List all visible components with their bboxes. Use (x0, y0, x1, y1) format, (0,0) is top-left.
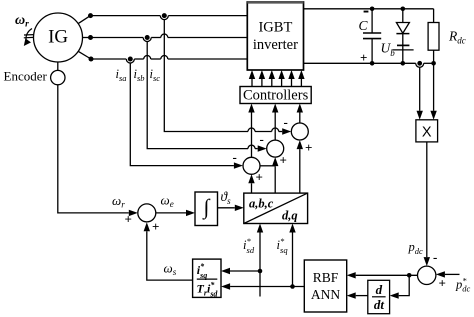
svg-text:+: + (439, 276, 446, 291)
wire phase a (top) from IG to inverter (78, 16, 90, 24)
svg-text:Encoder: Encoder (4, 69, 48, 84)
svg-text:∫: ∫ (202, 195, 211, 220)
wire p_dc to summer (426, 142, 428, 257)
summer S4 (dc power) (418, 266, 436, 284)
svg-text:ϑs: ϑs (221, 189, 232, 206)
node: cap bottom dot (370, 61, 375, 66)
battery branch: diode D1 (402, 9, 404, 23)
svg-text:IG: IG (48, 27, 68, 48)
node: phase b feed dot (88, 35, 93, 40)
node: i_sb tap junction (145, 35, 150, 40)
node: phase a feed dot (88, 13, 93, 18)
wire DC bus bottom (304, 62, 416, 64)
label minus (bus polarity) (364, 11, 369, 13)
svg-text:ANN: ANN (311, 287, 340, 302)
coordinate transform block a,b,c / d,q (244, 193, 308, 223)
wire reference phase b to summer J2 (274, 166, 276, 193)
svg-text:+: + (280, 153, 287, 168)
svg-text:-: - (284, 115, 288, 130)
svg-text:i*sd: i*sd (243, 236, 255, 255)
capacitor C (371, 9, 373, 33)
svg-text:d: d (376, 282, 383, 297)
svg-text:ωr: ωr (112, 193, 125, 210)
svg-text:p*dc: p*dc (455, 276, 471, 294)
wire current sense to multiplier (433, 63, 435, 111)
svg-text:Ub: Ub (381, 41, 396, 59)
svg-text:inverter: inverter (253, 37, 298, 53)
svg-text:C: C (359, 18, 369, 33)
node: phase c feed dot (89, 57, 94, 62)
svg-text:pdc: pdc (408, 240, 424, 256)
node: voltage sense junction on bottom bus (417, 61, 422, 66)
wire error branch to d/dt (399, 275, 410, 295)
wire J3 output to Controllers (299, 113, 301, 124)
wire i_sd branch to slip calculator (230, 270, 260, 272)
wire d/dt to RBF ANN (356, 295, 368, 297)
encoder circle (57, 62, 59, 70)
wire p_dc reference input (445, 273, 460, 275)
summer J3 (291, 123, 308, 140)
svg-text:+: + (256, 170, 263, 185)
multiplier block X (416, 120, 438, 142)
wire i_sa sense line to summer J1 (130, 63, 234, 166)
wire J2 output to Controllers (274, 113, 276, 141)
integrator block (195, 192, 218, 226)
svg-text:ωr: ωr (15, 13, 29, 30)
wire reference phase a to summer J1 (251, 183, 253, 193)
RBF ANN block (304, 260, 346, 312)
slip frequency calculator block (193, 259, 221, 297)
svg-text:RBF: RBF (313, 270, 339, 285)
wire omega_s to speed summer (147, 231, 193, 280)
wire DC bus top (304, 8, 434, 10)
wire i_sc sense line to summer J3 (164, 20, 248, 132)
induction generator IG (34, 13, 83, 62)
shaft rotation arrow (24, 29, 34, 47)
wire voltage sense to multiplier (419, 67, 421, 111)
svg-text:-: - (233, 150, 237, 165)
wire phase c (bottom) from IG to inverter (78, 51, 91, 59)
svg-text:Controllers: Controllers (243, 88, 309, 104)
svg-text:+: + (125, 212, 132, 227)
svg-text:ωs: ωs (164, 261, 177, 278)
svg-text:+: + (305, 140, 312, 155)
svg-text:i*sq: i*sq (277, 236, 289, 255)
derivative block d/dt (368, 280, 390, 313)
svg-text:Tri*sd: Tri*sd (197, 281, 219, 299)
node: i_sa tap junction (128, 57, 133, 62)
wire i_sb sense line to summer J2 (147, 42, 248, 149)
svg-text:Rdc: Rdc (448, 29, 466, 46)
svg-text:a,b,c: a,b,c (249, 197, 274, 211)
summer J2 (267, 140, 284, 157)
node: i_sc tap junction (162, 13, 167, 18)
wire i_sq reference from RBF ANN (230, 286, 304, 288)
wire encoder omega_r to speed summer (58, 85, 129, 213)
wire i_sq reference up to d,q block (292, 233, 294, 287)
wire theta_s to abc/dq block (218, 207, 235, 209)
wire phase b (middle) from IG to inverter (83, 37, 91, 39)
svg-text:X: X (422, 125, 432, 141)
svg-text:dt: dt (374, 297, 385, 312)
wire power error to RBF ANN (356, 274, 418, 276)
svg-text:isc: isc (150, 67, 161, 83)
svg-text:+: + (152, 219, 159, 234)
wire omega_e to integrator (156, 212, 186, 214)
battery U_b (397, 44, 409, 46)
node: diode branch top dot (401, 7, 406, 12)
wires Controllers to inverter (6 gate signals) (249, 70, 305, 87)
node: error branch dot (407, 273, 412, 278)
svg-text:ωe: ωe (161, 193, 174, 210)
svg-text:d,q: d,q (282, 209, 298, 223)
svg-text:isb: isb (134, 67, 145, 83)
node: i_sd branch dot (258, 269, 263, 274)
svg-text:IGBT: IGBT (258, 20, 292, 36)
svg-text:+: + (360, 50, 367, 65)
node: cap top dot (370, 7, 375, 12)
wire i_sd reference (external) up to d,q block (259, 233, 261, 297)
wire J1 output to Controllers (251, 113, 253, 158)
node: diode branch bottom dot (401, 61, 406, 66)
summer J1 (243, 157, 260, 174)
svg-text:isa: isa (116, 67, 127, 83)
Controllers block (240, 87, 311, 104)
svg-text:-: - (260, 132, 264, 147)
wire reference phase c to summer J3 (299, 149, 301, 193)
node: i_sq branch dot (290, 284, 295, 289)
IGBT inverter U1 (247, 2, 303, 70)
wire J1 link to J2 (260, 165, 275, 167)
svg-text:-: - (433, 250, 437, 265)
resistor R_dc (433, 9, 435, 23)
node: R_dc bottom dot (431, 61, 436, 66)
summer S0 (speed) (138, 204, 156, 222)
svg-text:i*sq: i*sq (197, 262, 207, 280)
